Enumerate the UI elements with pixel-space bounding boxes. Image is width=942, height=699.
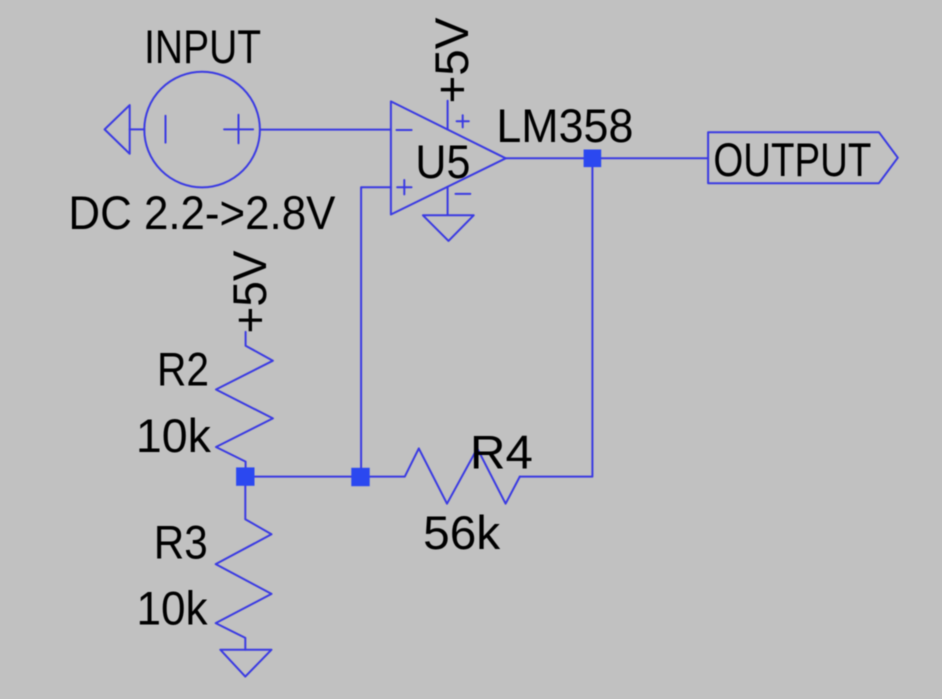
svg-text:+5V: +5V: [223, 250, 276, 334]
svg-text:10k: 10k: [137, 581, 208, 634]
svg-text:U5: U5: [415, 135, 470, 188]
svg-text:DC 2.2->2.8V: DC 2.2->2.8V: [68, 186, 336, 239]
ground (op-amp): [423, 215, 474, 241]
wire feedback: [361, 187, 391, 476]
wire output to R4: [520, 158, 593, 476]
wire output: [506, 157, 708, 159]
input port arrow: [105, 105, 145, 154]
svg-text:R4: R4: [470, 425, 533, 478]
ground (R3): [220, 650, 271, 677]
junction at divider node: [236, 467, 254, 485]
svg-text:OUTPUT: OUTPUT: [713, 133, 871, 186]
op-amp U5: [391, 101, 506, 214]
voltage source V1: [144, 72, 260, 188]
svg-text:INPUT: INPUT: [144, 20, 261, 73]
junction at feedback node: [351, 468, 369, 486]
svg-text:56k: 56k: [423, 506, 501, 559]
svg-text:10k: 10k: [136, 409, 211, 462]
svg-text:R3: R3: [154, 515, 208, 568]
resistor R3: [216, 486, 272, 650]
output flag OUTPUT: [708, 132, 898, 183]
svg-text:R2: R2: [157, 343, 209, 396]
svg-text:LM358: LM358: [496, 99, 633, 152]
junction at output: [584, 150, 602, 168]
wire divider node: [245, 476, 360, 478]
resistor R2: [216, 332, 273, 468]
wire: [260, 129, 391, 131]
wire ground pin of op-amp: [447, 187, 449, 215]
svg-text:+5V: +5V: [425, 17, 478, 104]
resistor R4: [361, 448, 520, 503]
wire +5V pin of op-amp: [447, 101, 449, 130]
